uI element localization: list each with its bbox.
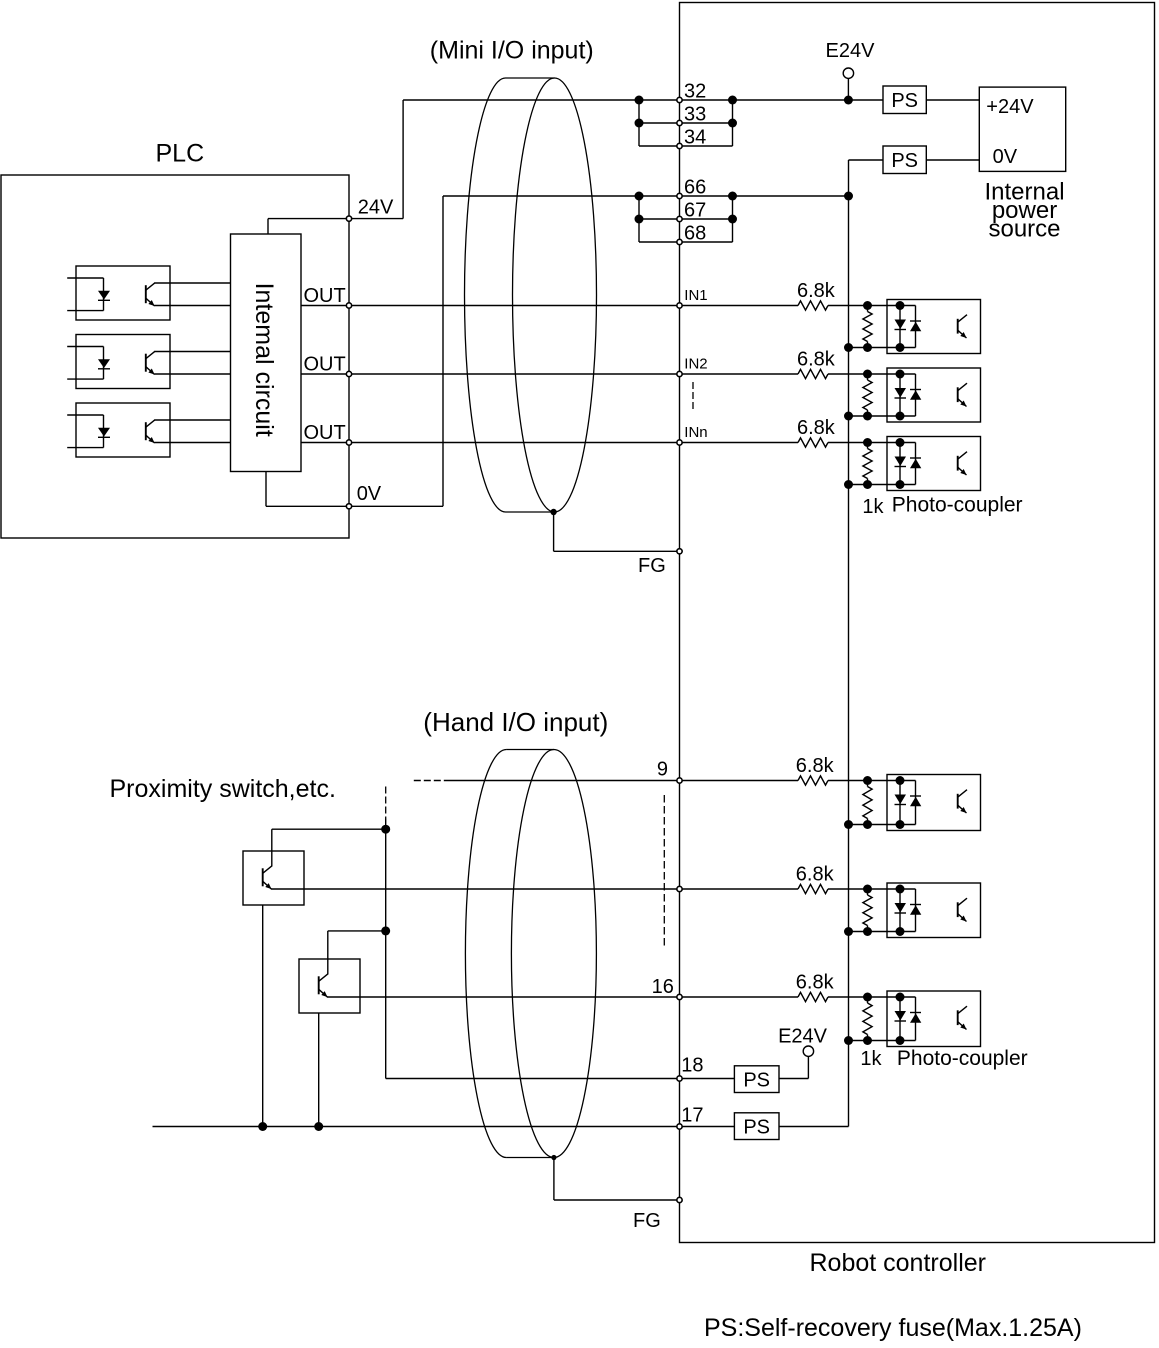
proximity switch Q2 box (299, 959, 360, 1013)
wire PS1 to +24V (926, 99, 979, 101)
node dot 1k bottom (863, 1036, 872, 1045)
svg-text:32: 32 (684, 80, 706, 102)
svg-text:16: 16 (652, 976, 674, 998)
PLC opto-coupler OC1 box (76, 266, 170, 320)
wire OC3 collector to internal circuit (155, 419, 231, 421)
wire pin9 (444, 780, 798, 782)
24V terminal circle (346, 216, 351, 221)
node dot 1k top (863, 438, 872, 447)
node dot LED bottom (896, 343, 905, 352)
node dot LED top (896, 370, 905, 379)
wire after resistor to photo-coupler (828, 996, 916, 998)
internal-circuit box U-int (231, 234, 302, 472)
wire OC2 emitter to internal circuit (155, 373, 231, 375)
OC2 LED input leads (67, 346, 103, 348)
wire photo-coupler bottom to rail (849, 484, 916, 486)
OC1 LED input leads (67, 277, 103, 279)
svg-text:66: 66 (684, 176, 706, 198)
node dot LED top (896, 776, 905, 785)
svg-text:18: 18 (681, 1055, 703, 1077)
resistor 1k (867, 781, 869, 787)
wire pin9 dashed lead (414, 780, 444, 782)
photo-coupler box (887, 991, 981, 1047)
robot controller box (680, 3, 1155, 1243)
svg-text:6.8k: 6.8k (796, 971, 835, 993)
photo-coupler LED pair (899, 306, 901, 348)
node dot 1k bottom (863, 480, 872, 489)
svg-text:6.8k: 6.8k (796, 755, 835, 777)
svg-text:FG: FG (633, 1210, 661, 1232)
pin 67 (677, 216, 682, 221)
svg-text:PS: PS (891, 90, 918, 112)
node dot E24V / pin32 (844, 96, 853, 105)
photo-coupler output transistor (957, 794, 959, 809)
wire OC2 collector to internal circuit (155, 351, 231, 353)
fuse PS2 box (883, 146, 926, 174)
OC3 LED diode (103, 415, 105, 448)
wire pin16 (327, 996, 798, 998)
photo-coupler LED pair (899, 889, 901, 932)
pin 9 (677, 778, 682, 783)
svg-text:Proximity switch,etc.: Proximity switch,etc. (110, 775, 336, 803)
node dot 32 left (635, 96, 644, 105)
svg-text:9: 9 (657, 758, 668, 780)
photo-coupler LED pair (899, 997, 901, 1041)
wire after resistor to photo-coupler (828, 888, 916, 890)
svg-text:E24V: E24V (826, 40, 876, 62)
wire 0V from power box to PS2 (926, 159, 979, 161)
svg-text:33: 33 (684, 103, 706, 125)
E24V terminal circle top (843, 68, 853, 78)
wire OC1 collector to internal circuit (155, 282, 231, 284)
pin 32 (677, 97, 682, 102)
OC2 LED diode (103, 347, 105, 380)
resistor 6.8k (798, 884, 828, 893)
node dot rail bottom (844, 480, 853, 489)
node dot LED top (896, 885, 905, 894)
photo-coupler box (887, 437, 981, 491)
pin FG bottom (677, 1197, 682, 1202)
wire OUT1 from internal circuit to PLC edge (301, 305, 349, 307)
node dot 33 left (635, 119, 644, 128)
node dot 67 right (728, 215, 737, 224)
node dot 1k bottom (863, 820, 872, 829)
OC1 phototransistor (145, 285, 147, 303)
hand I/O cable shield (465, 750, 506, 1158)
photo-coupler LED pair (899, 781, 901, 825)
node dot 1k bottom (863, 343, 872, 352)
photo-coupler LED pair (899, 374, 901, 416)
svg-text:(Mini I/O input): (Mini I/O input) (430, 37, 594, 65)
pin 66 (677, 193, 682, 198)
node dot LED bottom (896, 412, 905, 421)
svg-text:1k: 1k (860, 1048, 882, 1070)
0V terminal circle (346, 504, 351, 509)
svg-text:6.8k: 6.8k (797, 280, 836, 302)
OC3 phototransistor (145, 422, 147, 440)
svg-text:OUT: OUT (304, 422, 346, 444)
OC3 LED input leads (67, 414, 103, 416)
wire after resistor to photo-coupler (828, 373, 916, 375)
svg-text:0V: 0V (993, 146, 1018, 168)
photo-coupler box (887, 775, 981, 831)
resistor 1k (867, 889, 869, 895)
svg-text:Photo-coupler: Photo-coupler (892, 494, 1023, 517)
wire OUT1 to robot controller IN (349, 305, 680, 307)
resistor 1k (867, 306, 869, 312)
wire PS4 to 0V rail (779, 1126, 849, 1128)
wire FG top (553, 512, 555, 551)
node dot switch2 collector (381, 926, 390, 935)
svg-text:PLC: PLC (156, 140, 205, 168)
OC1 LED diode (103, 278, 105, 311)
OUT1 terminal circle (346, 303, 351, 308)
wire Q1 base lead down (262, 905, 264, 1127)
photo-coupler box (887, 883, 981, 938)
continuation dashes top (692, 382, 694, 411)
svg-text:67: 67 (684, 199, 706, 221)
node dot 1k top (863, 301, 872, 310)
resistor 6.8k (798, 369, 828, 378)
wire pin17 (153, 1126, 735, 1128)
node dot 66 left (635, 192, 644, 201)
wire 24V from internal circuit to riser (268, 218, 403, 220)
svg-text:IN2: IN2 (684, 356, 707, 373)
wire pin32 line (403, 99, 883, 101)
pin INn (677, 440, 682, 445)
continuation dashes hand section (663, 795, 665, 948)
node dot 67 left (635, 215, 644, 224)
photo-coupler output transistor (957, 387, 959, 402)
node dot LED top (896, 301, 905, 310)
wire OUT3 from internal circuit to PLC edge (301, 442, 349, 444)
node dot 1k bottom (863, 927, 872, 936)
svg-text:FG: FG (638, 555, 666, 577)
Q1 transistor (262, 868, 264, 886)
wire Q2 base lead down (318, 1013, 320, 1127)
wire 24V riser up to pin 32 line (402, 100, 404, 219)
fuse PS3 box (734, 1066, 779, 1093)
pin 34 (677, 143, 682, 148)
wire FG bottom (553, 1158, 555, 1201)
pin IN1 (677, 303, 682, 308)
svg-text:Intemal circuit: Intemal circuit (250, 283, 278, 437)
wire 34 bracket (638, 100, 640, 146)
wire after resistor to photo-coupler (828, 442, 916, 444)
OC2 phototransistor (145, 354, 147, 372)
node dot LED bottom (896, 820, 905, 829)
photo-coupler LED pair (899, 443, 901, 485)
wire internal-circuit bottom stub to 0V (265, 472, 267, 507)
terminal pin circles overlay (346, 216, 351, 221)
svg-text:6.8k: 6.8k (796, 863, 835, 885)
pin 68 (677, 239, 682, 244)
svg-text:0V: 0V (357, 483, 382, 505)
wire Q2 collector (327, 931, 329, 975)
node dot LED bottom (896, 1036, 905, 1045)
wire IN2 to resistor (680, 373, 799, 375)
resistor 1k (867, 443, 869, 449)
resistor 6.8k (798, 438, 828, 447)
wire OUT3 to robot controller IN (349, 442, 680, 444)
wire 0V riser up to pin 66 line (442, 196, 444, 506)
wire Q1 collector (271, 829, 273, 866)
node dot LED bottom (896, 927, 905, 936)
node dot rail / pin66 (844, 192, 853, 201)
photo-coupler box (887, 368, 981, 422)
pin FG top (677, 549, 682, 554)
wire photo-coupler bottom to rail (849, 347, 916, 349)
wire pin66 line (443, 195, 849, 197)
wire photo-coupler bottom to rail (849, 824, 916, 826)
svg-text:Robot controller: Robot controller (810, 1249, 986, 1277)
mini I/O cable shield (464, 78, 505, 512)
wire after resistor to photo-coupler (828, 305, 916, 307)
PLC opto-coupler OC2 box (76, 335, 170, 389)
node dot LED top (896, 438, 905, 447)
wire pin18 (386, 1078, 735, 1080)
node dot LED bottom (896, 480, 905, 489)
fuse PS1 box (883, 86, 926, 114)
Q2 transistor (318, 976, 320, 994)
pin middle (677, 886, 682, 891)
node dot Q2 on 17 line (314, 1122, 323, 1131)
node dot 1k top (863, 885, 872, 894)
svg-text:(Hand I/O input): (Hand I/O input) (423, 707, 608, 737)
svg-text:PS: PS (891, 150, 918, 172)
resistor 1k (867, 997, 869, 1003)
wire 0V from internal circuit to riser (266, 505, 443, 507)
node dot rail bottom (844, 343, 853, 352)
wire IN1 to resistor (680, 305, 799, 307)
wire internal-circuit top stub to 24V (267, 219, 269, 234)
svg-text:PS: PS (743, 1069, 770, 1091)
node dot 1k top (863, 370, 872, 379)
svg-text:OUT: OUT (304, 354, 346, 376)
fuse PS4 box (734, 1113, 779, 1140)
node dot rail bottom (844, 927, 853, 936)
svg-text:IN1: IN1 (684, 287, 707, 304)
pin IN2 (677, 371, 682, 376)
node dot 33 right (728, 119, 737, 128)
node dot 66 right (728, 192, 737, 201)
resistor 1k (867, 374, 869, 380)
svg-text:6.8k: 6.8k (797, 348, 836, 370)
node dot 1k top (863, 776, 872, 785)
svg-text:PS:Self-recovery fuse(Max.1.25: PS:Self-recovery fuse(Max.1.25A) (704, 1314, 1082, 1342)
svg-text:INn: INn (684, 424, 707, 441)
node dot Q1 on 17 line (258, 1122, 267, 1131)
svg-text:34: 34 (684, 126, 706, 148)
proximity common dashed stub (385, 787, 387, 819)
node dot rail bottom (844, 1036, 853, 1045)
photo-coupler output transistor (957, 319, 959, 334)
photo-coupler output transistor (957, 456, 959, 471)
svg-text:Photo-coupler: Photo-coupler (897, 1047, 1028, 1070)
proximity switch Q1 box (243, 851, 304, 905)
wire photo-coupler bottom to rail (849, 1040, 916, 1042)
node dot 1k bottom (863, 412, 872, 421)
svg-text:E24V: E24V (778, 1026, 828, 1048)
wire 68 bracket (638, 196, 640, 242)
photo-coupler output transistor (957, 1010, 959, 1025)
resistor 6.8k (798, 776, 828, 785)
pin 16 (677, 994, 682, 999)
wire photo-coupler bottom to rail (849, 415, 916, 417)
wire 67 (639, 218, 733, 220)
node dot rail bottom (844, 412, 853, 421)
proximity common vertical (385, 819, 387, 1079)
wire INn to resistor (680, 442, 799, 444)
node dot rail bottom (844, 820, 853, 829)
node dot cable shield bottom (551, 1155, 556, 1160)
PLC opto-coupler OC3 box (76, 403, 170, 457)
svg-text:17: 17 (681, 1104, 703, 1126)
PLC box (1, 175, 349, 538)
pin 33 (677, 120, 682, 125)
node dot cable shield top (550, 509, 556, 515)
svg-text:+24V: +24V (986, 96, 1034, 118)
svg-text:1k: 1k (862, 496, 884, 518)
OUT2 terminal circle (346, 371, 351, 376)
node dot LED top (896, 993, 905, 1002)
wire OC3 emitter to internal circuit (155, 442, 231, 444)
wire OC1 emitter to internal circuit (155, 305, 231, 307)
wire 33 (639, 122, 733, 124)
node dot 1k top (863, 993, 872, 1002)
photo-coupler output transistor (957, 902, 959, 917)
OUT3 terminal circle (346, 440, 351, 445)
resistor 6.8k (798, 301, 828, 310)
wire OUT2 to robot controller IN (349, 373, 680, 375)
svg-text:OUT: OUT (304, 285, 346, 307)
E24V terminal circle bottom (803, 1046, 813, 1056)
resistor 6.8k (798, 992, 828, 1001)
wire E24V stub (847, 78, 849, 100)
0V rail vertical (848, 196, 850, 1127)
wire PS2 to rail (849, 159, 884, 161)
svg-text:68: 68 (684, 222, 706, 244)
node dot switch1 collector (381, 825, 390, 834)
internal power source box (979, 87, 1065, 171)
wire after resistor to photo-coupler (828, 780, 916, 782)
svg-text:6.8k: 6.8k (797, 417, 836, 439)
svg-text:24V: 24V (358, 196, 394, 218)
wire OUT2 from internal circuit to PLC edge (301, 373, 349, 375)
svg-text:PS: PS (743, 1116, 770, 1138)
photo-coupler box (887, 300, 981, 354)
wire PS3 to E24V (779, 1078, 808, 1080)
wire photo-coupler bottom to rail (849, 931, 916, 933)
node dot 32 right (728, 96, 737, 105)
pin 17 (677, 1124, 682, 1129)
wire middle input (271, 888, 798, 890)
svg-text:source: source (988, 215, 1060, 242)
pin 18 (677, 1076, 682, 1081)
